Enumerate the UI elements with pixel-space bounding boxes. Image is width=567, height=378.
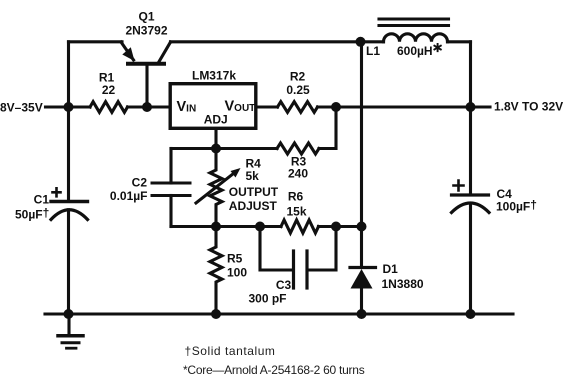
- resistor R3: [277, 143, 319, 154]
- diode D1 cathode bar: [350, 266, 376, 269]
- capacitor C1 bottom lead: [67, 210, 70, 314]
- ground bar 1: [58, 334, 83, 338]
- capacitor C1 plate curved: [51, 210, 88, 220]
- ground bar 3: [67, 347, 77, 350]
- node R2/R3 junction: [331, 102, 341, 112]
- svg-text:R6: R6: [288, 189, 304, 203]
- wire adj node to R3: [216, 147, 277, 150]
- node bottom left junction: [64, 309, 74, 319]
- svg-text:D1: D1: [383, 262, 399, 276]
- svg-text:†Solid tantalum: †Solid tantalum: [185, 344, 276, 358]
- svg-text:0.25: 0.25: [286, 83, 310, 97]
- Q1 emitter arrowhead: [122, 47, 134, 61]
- diode D1 anode lead: [360, 289, 363, 315]
- node C3 left junction: [255, 222, 265, 232]
- capacitor C4 plus sign: [454, 181, 464, 191]
- node R6/C3 right junction: [331, 222, 341, 232]
- capacitor C2 plate lower: [152, 194, 190, 197]
- capacitor C3 plate left: [292, 251, 295, 288]
- capacitor C4 plate curved: [452, 203, 490, 213]
- capacitor C1 plate top: [51, 200, 88, 203]
- wire R2 to output node: [318, 105, 471, 108]
- Q1 base bar: [128, 62, 164, 66]
- resistor R6: [281, 220, 319, 233]
- node ADJ junction: [211, 144, 221, 154]
- wire left rail vertical (top corner to input node): [67, 42, 70, 107]
- svg-text:22: 22: [102, 83, 116, 97]
- wire top-left from left rail corner to Q1 emitter: [69, 40, 123, 43]
- capacitor C4 plate top: [452, 193, 489, 196]
- svg-text:100µF†: 100µF†: [496, 198, 537, 214]
- svg-text:5k: 5k: [246, 169, 260, 183]
- capacitor C4 bottom lead: [469, 203, 472, 314]
- capacitor C2 top lead: [169, 149, 172, 184]
- svg-text:2N3792: 2N3792: [125, 24, 167, 38]
- node bottom R5 junction: [211, 309, 221, 319]
- node mid rail / main vertical junction: [357, 222, 367, 232]
- svg-text:50µF†: 50µF†: [15, 206, 49, 222]
- rheostat R4: [210, 149, 222, 227]
- svg-text:1N3880: 1N3880: [382, 277, 424, 291]
- svg-text:8V–35V: 8V–35V: [0, 100, 43, 114]
- node input junction (left rail / R1 / 8V-35V): [64, 102, 74, 112]
- rheostat R4 arrowhead: [231, 168, 241, 178]
- wire output stub: [471, 105, 491, 108]
- svg-text:300 pF: 300 pF: [249, 292, 287, 306]
- svg-text:ADJUST: ADJUST: [229, 199, 278, 213]
- asterisk for L1 footnote: [434, 44, 440, 51]
- ground symbol: [58, 314, 83, 348]
- capacitor C2 plate upper: [152, 182, 190, 185]
- wire R6 to main vertical: [319, 225, 362, 228]
- capacitor C3 right lead: [309, 227, 337, 271]
- inductor L1: [384, 34, 448, 42]
- wire main vertical from L1 node down to D1: [360, 42, 363, 268]
- svg-text:C2: C2: [132, 176, 148, 190]
- inductor L1 core line lower: [379, 24, 449, 27]
- wire bottom rail: [45, 312, 513, 315]
- Q1 emitter line: [121, 42, 134, 60]
- capacitor C3 left lead: [260, 227, 292, 271]
- rheostat R4 arrow: [196, 172, 236, 204]
- svg-text:C3: C3: [276, 278, 292, 292]
- svg-text:Q1: Q1: [138, 10, 154, 24]
- svg-text:R5: R5: [227, 252, 243, 266]
- diode D1 triangle: [351, 269, 373, 289]
- capacitor C3 plate right: [305, 251, 308, 288]
- Q1 base lead: [145, 66, 148, 107]
- transistor Q1: [121, 42, 171, 107]
- resistor R2: [278, 102, 318, 113]
- wire R1 to LM317 VIN: [128, 105, 169, 108]
- wire ADJ pin to adj node: [214, 130, 217, 149]
- svg-text:OUTPUT: OUTPUT: [229, 185, 279, 199]
- node bottom D1 junction: [357, 309, 367, 319]
- wire R3 right up to R2 node: [319, 107, 336, 149]
- node Q1 base / R1 / VIN junction: [142, 102, 152, 112]
- wire mid rail left segment: [171, 225, 281, 228]
- node output junction: [466, 102, 476, 112]
- node L1 left junction: [356, 37, 366, 47]
- svg-text:600µH: 600µH: [397, 44, 433, 58]
- capacitor C2 bottom lead: [169, 196, 172, 227]
- Q1 collector line: [159, 42, 171, 63]
- svg-text:C1: C1: [34, 193, 50, 207]
- resistor R1: [90, 102, 128, 113]
- ground stub: [67, 314, 70, 335]
- svg-text:VIN: VIN: [177, 99, 197, 115]
- svg-text:100: 100: [227, 265, 247, 279]
- capacitor C4 top lead: [469, 42, 472, 195]
- svg-text:ADJ: ADJ: [204, 113, 228, 127]
- svg-text:L1: L1: [366, 44, 380, 58]
- node bottom C4 junction: [466, 309, 476, 319]
- resistor R5: [210, 227, 222, 315]
- inductor L1 core line upper: [379, 17, 449, 20]
- svg-text:LM317k: LM317k: [192, 68, 236, 82]
- ground bar 2: [62, 341, 79, 344]
- wire Q1 collector to L1 node: [171, 40, 361, 43]
- capacitor C1 top lead: [67, 107, 70, 202]
- wire VOUT to R2: [258, 105, 278, 108]
- node R4/R5 junction: [211, 222, 221, 232]
- wire inductor to right rail corner: [448, 40, 471, 43]
- IC U1 LM317k box: [170, 84, 256, 129]
- svg-text:R2: R2: [290, 70, 306, 84]
- svg-text:*Core—Arnold A-254168-2 60 tur: *Core—Arnold A-254168-2 60 turns: [183, 363, 365, 377]
- wire adj node to C2 branch: [171, 147, 216, 150]
- svg-text:240: 240: [288, 167, 308, 181]
- wire 8V-35V lead to input node: [46, 105, 91, 108]
- svg-text:15k: 15k: [286, 204, 306, 218]
- svg-text:0.01µF: 0.01µF: [110, 189, 148, 203]
- wire node to inductor start: [361, 40, 384, 43]
- capacitor C1 plus sign: [53, 188, 61, 196]
- svg-text:1.8V TO 32V: 1.8V TO 32V: [494, 100, 563, 114]
- svg-text:VOUT: VOUT: [225, 99, 256, 115]
